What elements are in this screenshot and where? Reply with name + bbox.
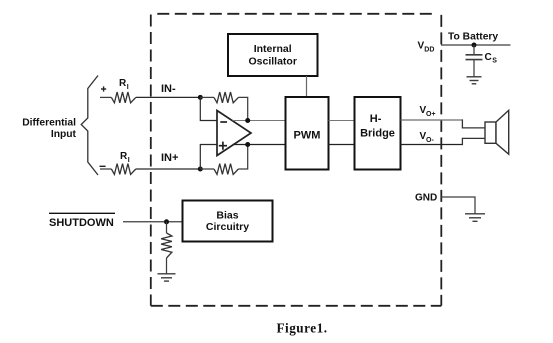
svg-text:O+: O+ — [426, 111, 436, 118]
block PWM — [286, 97, 329, 170]
wire node to op-amp non-inverting input — [200, 145, 217, 170]
svg-text:Bridge: Bridge — [360, 127, 395, 139]
wire IN+ to node — [136, 168, 201, 170]
wire GND — [441, 197, 475, 214]
wire oscillator to PWM — [306, 76, 308, 97]
wire op-amp output bottom to PWM — [233, 144, 286, 146]
svg-text:Figure1.: Figure1. — [276, 321, 327, 336]
resistor feedback bottom — [214, 164, 238, 175]
svg-text:DD: DD — [424, 46, 434, 53]
wire IN- lead — [100, 96, 111, 98]
wire top feedback right — [238, 97, 247, 120]
wire VDD supply — [441, 44, 511, 46]
plus terminal — [101, 86, 106, 91]
wire bottom feedback left — [200, 168, 214, 170]
svg-text:GND: GND — [415, 193, 437, 204]
wire VO- to speaker — [401, 144, 463, 146]
block H-Bridge — [355, 97, 401, 170]
wire bottom feedback right — [238, 145, 247, 170]
svg-text:H-: H- — [370, 113, 382, 125]
svg-text:C: C — [485, 52, 492, 63]
svg-text:R: R — [120, 151, 128, 162]
resistor RI bottom — [111, 164, 135, 175]
svg-text:Internal: Internal — [254, 43, 292, 55]
label SHUTDOWN with overline — [49, 213, 115, 229]
node shutdown junction — [164, 219, 169, 224]
svg-text:S: S — [492, 58, 497, 65]
node output top — [245, 118, 250, 123]
svg-text:Oscillator: Oscillator — [248, 56, 296, 68]
node VDD junction — [472, 43, 477, 48]
svg-text:Input: Input — [51, 129, 77, 140]
label Differential Input — [22, 118, 76, 141]
dashed IC boundary box — [151, 14, 442, 306]
svg-text:Bias: Bias — [216, 210, 238, 222]
speaker cone — [496, 110, 509, 154]
node IN- junction — [198, 95, 203, 100]
label CS — [485, 52, 498, 65]
capacitor CS — [466, 45, 483, 77]
block Internal Oscillator — [228, 34, 318, 76]
svg-text:I: I — [127, 84, 129, 91]
label VO+ — [420, 105, 436, 118]
svg-text:O-: O- — [426, 137, 434, 144]
input brace — [81, 76, 98, 176]
svg-text:IN-: IN- — [161, 83, 176, 95]
wire IN+ lead — [100, 168, 111, 170]
svg-text:IN+: IN+ — [161, 152, 178, 164]
svg-text:PWM: PWM — [294, 130, 321, 142]
ground below pulldown — [158, 274, 176, 281]
minus terminal — [100, 165, 106, 167]
svg-text:I: I — [128, 157, 130, 164]
label VO- — [420, 131, 435, 144]
ground symbol right — [465, 214, 485, 222]
wire IN- to node — [136, 96, 201, 98]
op-amp U1 triangle — [217, 111, 251, 156]
label VDD — [418, 41, 435, 54]
label RI top — [119, 78, 129, 91]
svg-text:Circuitry: Circuitry — [206, 221, 249, 233]
op-amp plus sign — [219, 142, 227, 150]
svg-text:SHUTDOWN: SHUTDOWN — [49, 217, 114, 229]
ground below CS — [467, 77, 482, 84]
wire PWM to H-Bridge top — [329, 120, 355, 122]
wire PWM to H-Bridge bottom — [329, 144, 355, 146]
wire node to pulldown resistor — [166, 222, 168, 233]
wire VO+ to speaker — [401, 119, 463, 121]
wire op-amp output top to PWM — [233, 120, 286, 122]
resistor pulldown — [161, 233, 172, 258]
wire node to op-amp inverting input — [200, 97, 217, 120]
node IN+ junction — [198, 167, 203, 172]
resistor RI top — [111, 92, 135, 103]
node output bottom — [245, 142, 250, 147]
speaker body — [485, 122, 496, 143]
block Bias Circuitry — [183, 201, 273, 242]
wire top feedback left — [200, 96, 214, 98]
label RI bottom — [120, 151, 130, 164]
wire SHUTDOWN to bias — [123, 221, 183, 223]
wire resistor to ground — [166, 258, 168, 274]
resistor feedback top — [214, 92, 238, 103]
op-amp minus sign — [220, 121, 227, 123]
svg-text:Differential: Differential — [22, 118, 76, 129]
svg-text:To Battery: To Battery — [448, 32, 498, 43]
svg-text:R: R — [119, 78, 127, 89]
